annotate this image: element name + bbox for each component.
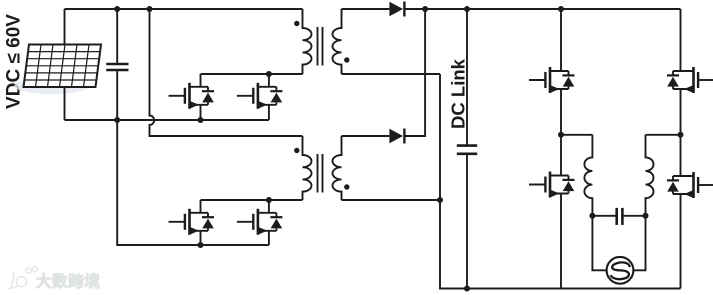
wire D1 cathode to DC link plus rail — [404, 8, 680, 10]
node T2 primary polarity dot — [294, 148, 299, 153]
watermark logo — [9, 267, 38, 289]
wire stage2 return rail — [117, 120, 269, 245]
wire Q2 source lead — [268, 105, 270, 120]
transistor Q5 bridge upper-left MOSFET — [529, 67, 575, 93]
wire Q7 source lead — [560, 194, 562, 289]
node T2 secondary to DC minus junction — [437, 197, 443, 203]
transistor Q8 bridge lower-right MOSFET mirrored — [667, 172, 713, 198]
transistor Q2 stage1 right MOSFET — [237, 83, 283, 109]
wire Q1 source lead — [200, 105, 202, 120]
wire Q1 drain lead — [200, 74, 202, 87]
wire T1 secondary bottom to DC link minus — [342, 73, 441, 75]
wire T2 secondary bottom — [342, 199, 441, 201]
node C2 bottom junction — [464, 286, 470, 292]
wire Q6 drain lead — [680, 9, 682, 71]
node T1 primary polarity dot — [294, 21, 299, 26]
transistor Q6 bridge upper-right MOSFET mirrored — [667, 67, 713, 93]
node capacitor C1 bottom junction — [114, 117, 120, 123]
wire phase A to inductor L1 — [561, 134, 592, 136]
wire stage2 feed from top rail with hop over stage1 rail — [150, 9, 303, 136]
inductor L1 — [584, 135, 592, 216]
node Q3 source junction — [198, 242, 204, 248]
node T2 secondary polarity dot — [344, 184, 349, 189]
node phase B junction — [678, 132, 684, 138]
wire Q5 drain lead — [560, 9, 562, 71]
wire T1 secondary top to diode D1 — [342, 8, 390, 10]
wire Q8 drain lead — [680, 135, 682, 176]
node capacitor C1 top junction — [114, 6, 120, 12]
wire D2 cathode riser to top rail — [404, 9, 425, 136]
node C2 top junction — [464, 6, 470, 12]
capacitor C3 output filter right lead — [622, 215, 645, 217]
diode D2 — [389, 129, 404, 144]
svg-text:VDC ≤ 60V: VDC ≤ 60V — [4, 14, 25, 109]
transformer T2 primary winding — [303, 136, 312, 200]
transformer T1 primary winding — [303, 9, 312, 74]
capacitor C2 DC link top lead — [466, 9, 468, 146]
solar panel PV shadow — [14, 78, 90, 94]
node C3 right junction — [643, 213, 649, 219]
wire AC source left branch — [592, 216, 606, 270]
capacitor C1 input bottom lead — [116, 70, 118, 120]
inductor L2 — [646, 135, 654, 216]
wire Q3 source lead — [200, 231, 202, 245]
capacitor C2 DC link plates — [457, 144, 477, 147]
transistor Q3 stage2 left MOSFET — [169, 209, 215, 235]
wire Q5 source lead — [560, 89, 562, 135]
node C3 left junction — [589, 213, 595, 219]
transformer T2 secondary winding — [332, 136, 341, 200]
transformer T1 secondary winding — [332, 9, 341, 74]
solar panel PV module — [24, 45, 102, 88]
wire Q7 drain lead — [560, 135, 562, 176]
transformer T2 core — [317, 154, 319, 193]
transistor Q1 stage1 left MOSFET — [169, 83, 215, 109]
wire T2 secondary top to diode D2 — [342, 135, 390, 137]
node Q1 source junction — [198, 117, 204, 123]
capacitor C1 input top lead — [116, 9, 118, 64]
capacitor C3 output filter plates — [615, 208, 618, 225]
node Q5 drain junction on top rail — [558, 6, 564, 12]
AC source V1 grid — [607, 257, 634, 284]
wire bottom rail stage1 — [65, 119, 269, 121]
wire Q2 drain lead — [268, 74, 270, 87]
wire Q8 source lead — [680, 194, 682, 289]
wire Q4 source lead — [268, 231, 270, 245]
wire Q6 source lead — [680, 89, 682, 135]
node Q4 drain junction — [266, 197, 272, 203]
wire top rail left — [65, 8, 303, 10]
capacitor C1 input plates — [106, 63, 128, 66]
capacitor C3 output filter left lead — [592, 215, 616, 217]
wire DC link minus bus — [440, 74, 681, 289]
transformer T1 core — [317, 27, 319, 66]
node stage2 feed junction on top rail — [147, 6, 153, 12]
wire stage2 drain bus — [201, 199, 303, 201]
svg-text:大数跨境: 大数跨境 — [36, 272, 100, 291]
node T1 secondary polarity dot — [344, 57, 349, 62]
node Q2 drain junction — [266, 71, 272, 77]
diode D1 — [389, 2, 404, 17]
capacitor C2 DC link bottom lead — [466, 154, 468, 289]
wire stage1 drain bus — [201, 73, 303, 75]
wire AC source right branch — [633, 216, 645, 270]
wire Q3 drain lead — [200, 200, 202, 213]
wire phase B to inductor L2 — [646, 134, 681, 136]
wire Q4 drain lead — [268, 200, 270, 213]
transistor Q7 bridge lower-left MOSFET — [529, 172, 575, 198]
transistor Q4 stage2 right MOSFET — [237, 209, 283, 235]
node D2 riser junction on top rail — [422, 6, 428, 12]
wire PV top lead — [64, 9, 66, 45]
svg-text:DC Link: DC Link — [448, 58, 469, 129]
node phase A junction — [558, 132, 564, 138]
wire PV bottom lead — [64, 87, 66, 120]
